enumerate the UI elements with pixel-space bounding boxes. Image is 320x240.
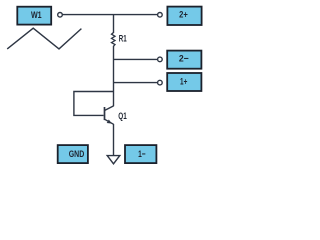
triangle-wave symbol for W1 [7,28,81,49]
svg-text:R1: R1 [119,34,127,45]
wire: node to 1+ terminal [114,82,158,84]
wire: vertical from top net down to resistor R1 [113,15,115,33]
scope channel 1+ terminal circle [158,80,163,85]
scope channel box 2- [167,51,201,69]
scope channel 2+ terminal circle [158,13,163,18]
svg-text:2+: 2+ [179,10,188,21]
svg-text:W1: W1 [31,10,42,21]
ground symbol [107,156,120,164]
wire: base-collector feedback loop [74,92,114,116]
svg-text:1+: 1+ [180,77,188,88]
svg-text:Q1: Q1 [118,111,127,122]
wire: node to 2- terminal [114,58,158,60]
scope channel 2- terminal circle [158,57,163,62]
1- label box [125,145,156,163]
svg-text:1−: 1− [138,149,146,160]
scope channel box 1+ [167,73,201,91]
W1 terminal circle [58,13,63,18]
svg-text:GND: GND [69,149,85,160]
svg-text:2−: 2− [179,54,189,65]
wire: emitter down to ground [113,124,115,155]
waveform generator terminal box W1 [17,7,51,25]
transistor Q1 (diode-connected NPN) [105,106,114,124]
resistor R1 zigzag [112,33,116,47]
wire: from R1 down to collector node [113,46,115,106]
wire: top net from W1 terminal to 2+ terminal [63,14,158,16]
scope channel box 2+ [167,7,201,25]
GND label box [58,145,88,163]
